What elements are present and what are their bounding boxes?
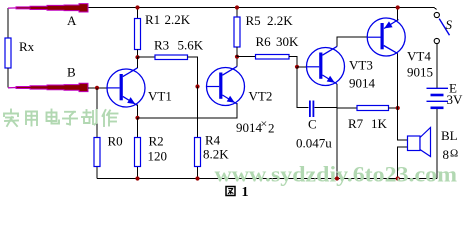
svg-text:8: 8 <box>443 147 450 162</box>
svg-text:VT3: VT3 <box>349 58 373 73</box>
capacitor C <box>297 67 337 117</box>
node top rail at R5 <box>235 5 239 9</box>
svg-text:C: C <box>308 117 317 132</box>
svg-text:120: 120 <box>148 149 168 164</box>
svg-text:2: 2 <box>268 121 275 136</box>
battery E <box>427 88 449 178</box>
resistor Rx <box>5 38 11 68</box>
node emitter bus / R2 junction <box>135 116 139 120</box>
node ground rail at R2 <box>135 176 139 180</box>
wire bottom ground rail <box>97 178 437 180</box>
watermark 实用电子制作 <box>4 110 118 127</box>
wire VT1 emitter down <box>137 104 139 117</box>
wire VT3 base lead <box>297 66 307 68</box>
transistor VT3 <box>307 46 345 85</box>
svg-text:R1: R1 <box>145 12 160 27</box>
glyph dian <box>47 110 60 124</box>
svg-text:VT4: VT4 <box>407 49 431 64</box>
svg-text:1: 1 <box>242 185 249 198</box>
transistor VT1 <box>107 68 145 107</box>
node VT4 collector / R7 / speaker junction <box>396 106 400 110</box>
wire VT4 emitter to top rail <box>397 8 399 21</box>
svg-text:2.2K: 2.2K <box>267 13 293 28</box>
svg-text:R6: R6 <box>256 34 272 49</box>
svg-text:S: S <box>446 17 453 32</box>
transistor VT4 (PNP) <box>367 18 405 56</box>
svg-text:R7: R7 <box>348 116 364 131</box>
value 8 ohm <box>443 147 459 162</box>
svg-text:9014: 9014 <box>236 120 263 135</box>
svg-text:9015: 9015 <box>407 65 433 80</box>
svg-text:30K: 30K <box>276 34 299 49</box>
wire VT3 collector to VT4 base <box>337 37 367 46</box>
glyph shi <box>4 110 18 127</box>
svg-text:R5: R5 <box>246 13 261 28</box>
wire VT4 collector down <box>397 54 399 108</box>
resistor R0 <box>94 88 100 179</box>
svg-text:×: × <box>261 117 268 131</box>
resistor R2 <box>135 118 141 179</box>
node VT3 base / C junction <box>295 65 299 69</box>
resistor R5 <box>234 8 240 57</box>
svg-text:8.2K: 8.2K <box>203 147 229 162</box>
svg-text:B: B <box>67 65 76 80</box>
svg-text:R2: R2 <box>149 134 164 149</box>
svg-text:1K: 1K <box>371 116 388 131</box>
svg-text:9014: 9014 <box>349 76 376 91</box>
svg-text:A: A <box>67 13 77 28</box>
node top rail at VT4 <box>396 5 400 9</box>
value 9014 x2 <box>236 117 275 136</box>
svg-text:R4: R4 <box>205 133 221 148</box>
speaker BL <box>398 108 431 179</box>
svg-text:0.047u: 0.047u <box>296 136 332 151</box>
wire left loop lower (Rx to probe B tip) <box>7 68 9 88</box>
wire top supply rail <box>84 7 434 9</box>
svg-text:3V: 3V <box>447 92 463 107</box>
glyph zi <box>63 112 77 125</box>
probe B <box>8 83 88 91</box>
glyph yong <box>26 112 37 126</box>
resistor R6 <box>237 55 297 67</box>
svg-text:R0: R0 <box>108 134 123 149</box>
resistor R3 <box>138 55 198 87</box>
node top rail at R1 <box>135 5 139 9</box>
svg-text:VT2: VT2 <box>249 89 273 104</box>
glyph zuo <box>103 110 118 126</box>
node R0 / VT1 base junction <box>95 86 99 90</box>
wire left loop upper (probe A tip to Rx) <box>7 8 9 38</box>
resistor R1 <box>135 8 141 58</box>
node ground rail at speaker <box>396 176 400 180</box>
wire VT3 emitter down to ground rail <box>336 84 338 179</box>
resistor R7 <box>337 106 398 111</box>
svg-text:BL: BL <box>441 128 458 143</box>
node VT1 collector / R3 junction <box>135 55 139 59</box>
svg-text:Rx: Rx <box>19 39 35 54</box>
svg-text:VT1: VT1 <box>148 89 172 104</box>
resistor R4 <box>195 87 201 179</box>
switch S <box>434 8 450 44</box>
svg-text:2.2K: 2.2K <box>165 12 191 27</box>
wire VT2 collector to node <box>236 57 238 67</box>
svg-text:R3: R3 <box>154 38 169 53</box>
node ground rail at R4 <box>195 176 199 180</box>
node R5 / R6 / VT2 collector <box>235 55 239 59</box>
node ground rail at VT3 emitter <box>335 176 339 180</box>
caption figure 1 <box>226 185 249 200</box>
wire switch to battery <box>436 44 438 88</box>
probe A <box>8 4 88 12</box>
wire emitter bus VT1-VT2 <box>138 103 238 118</box>
svg-text:Ω: Ω <box>450 148 458 160</box>
node VT2 base / R4 junction <box>195 84 199 88</box>
svg-text:www.sydzdiy.6to23.com: www.sydzdiy.6to23.com <box>215 162 458 187</box>
transistor VT2 <box>207 66 245 105</box>
svg-text:5.6K: 5.6K <box>178 38 204 53</box>
wire VT1 collector to node <box>137 57 139 68</box>
wire probe B to VT1 base <box>88 87 108 89</box>
glyph zhi <box>82 110 97 125</box>
